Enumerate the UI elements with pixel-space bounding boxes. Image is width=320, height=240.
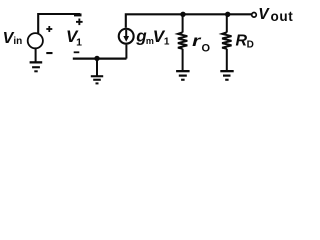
wire: source top stem and left top rail	[38, 14, 80, 33]
wire: RD top stem	[226, 14, 228, 32]
wire: rO top stem	[182, 14, 184, 32]
plus of V1	[76, 19, 83, 26]
wire: source bottom stem	[35, 48, 37, 61]
current source U1 circle	[119, 29, 134, 44]
wire: left rail end tick	[74, 13, 82, 16]
svg-text:O: O	[202, 43, 211, 55]
label V1	[66, 27, 82, 49]
label Vout	[258, 6, 293, 24]
minus of source	[46, 52, 52, 54]
ground middle	[91, 75, 103, 84]
node dot at rO top	[180, 12, 185, 17]
plus of source	[46, 26, 52, 32]
resistor RD zigzag	[222, 32, 231, 49]
svg-text:1: 1	[164, 36, 170, 47]
svg-text:D: D	[247, 40, 254, 51]
node dot at RD top	[225, 12, 230, 17]
label RD	[236, 32, 254, 50]
ground under source	[30, 61, 43, 72]
svg-text:1: 1	[76, 37, 82, 49]
wire: bottom left rail	[73, 57, 127, 59]
node junction dot on bottom rail	[94, 56, 99, 61]
ground under RD	[220, 70, 233, 81]
ground under rO	[176, 70, 190, 81]
arrow inside current source	[123, 30, 129, 42]
svg-text:in: in	[13, 36, 22, 47]
svg-text:out: out	[271, 9, 294, 24]
wire: gm source top stem and right rail	[126, 14, 252, 27]
output terminal circle	[252, 13, 257, 18]
voltage source VS circle	[28, 33, 43, 48]
resistor rO zigzag	[178, 32, 187, 49]
label Vin	[3, 30, 23, 47]
svg-text:r: r	[192, 33, 201, 50]
label gmV1	[135, 27, 170, 48]
wire: middle ground stem	[96, 58, 98, 75]
minus of V1	[74, 51, 80, 53]
svg-text:V: V	[258, 6, 270, 23]
wire: gm source bottom stem	[125, 45, 127, 59]
label rO	[192, 33, 210, 55]
wire: rO bottom stem	[182, 49, 184, 71]
wire: RD bottom stem	[226, 49, 228, 71]
